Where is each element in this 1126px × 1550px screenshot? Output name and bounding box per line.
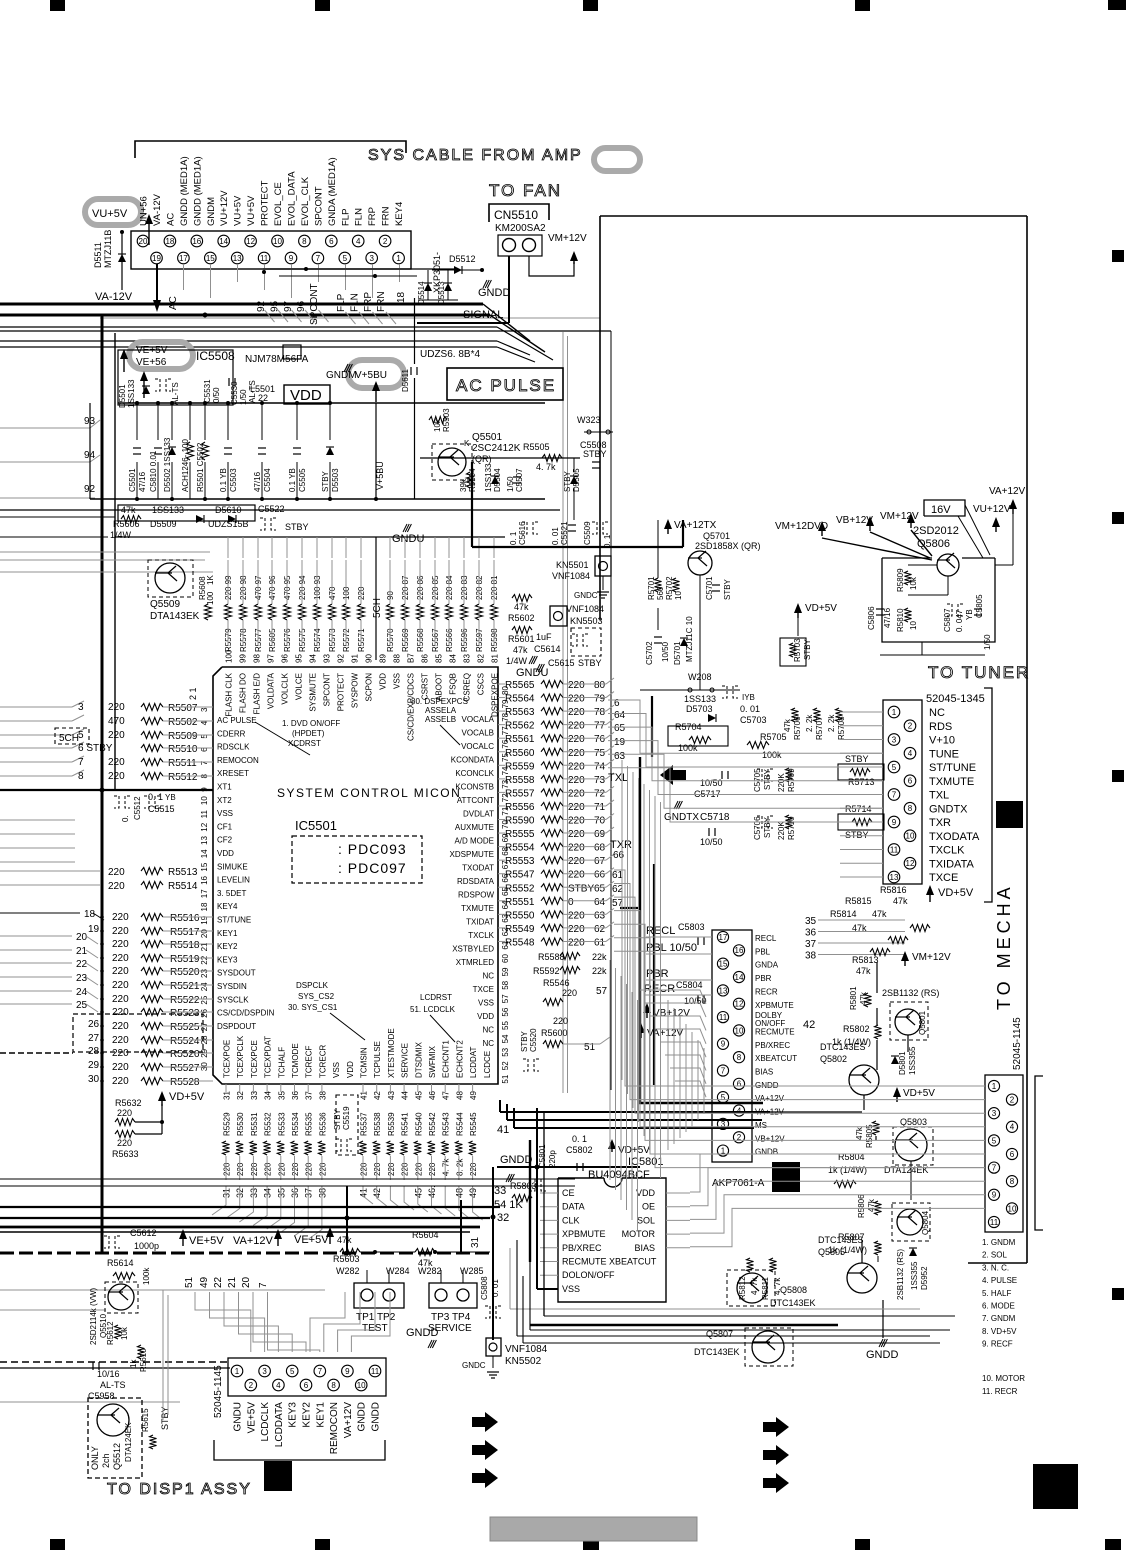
svg-text:3. N. C.: 3. N. C. xyxy=(982,1263,1009,1272)
svg-text:33: 33 xyxy=(494,1185,506,1197)
svg-text:220: 220 xyxy=(387,1162,396,1176)
wire bundle vertical to 17pin connector xyxy=(667,1000,669,1150)
pin 9 xyxy=(717,1038,728,1049)
svg-text:220: 220 xyxy=(112,1048,129,1059)
svg-text:74: 74 xyxy=(594,761,606,772)
svg-text:8: 8 xyxy=(1010,1177,1015,1186)
svg-text:8. 2k: 8. 2k xyxy=(455,1158,464,1176)
pin 8 REMOCON xyxy=(328,1379,340,1391)
svg-text:R5541: R5541 xyxy=(401,1112,410,1136)
svg-text:KM200SA2: KM200SA2 xyxy=(495,223,546,234)
svg-text:78: 78 xyxy=(594,707,606,718)
jack KN5502 VNF1084 xyxy=(486,1338,501,1356)
resistor R5512 xyxy=(0,775,72,777)
svg-text:16: 16 xyxy=(735,946,744,955)
svg-text:25: 25 xyxy=(76,1000,88,1011)
svg-text:DTC143EK: DTC143EK xyxy=(770,1298,816,1308)
svg-text:D5952: D5952 xyxy=(920,1266,929,1290)
wire rail VDD xyxy=(118,402,545,404)
pin 12 xyxy=(245,235,257,247)
svg-text:TO DISP1 ASSY: TO DISP1 ASSY xyxy=(107,1481,252,1498)
svg-text:VSS: VSS xyxy=(393,673,402,689)
pin 2 RDS xyxy=(904,720,916,732)
pin 3 xyxy=(366,252,378,264)
ground GNDD mecha xyxy=(882,1300,884,1338)
wire 94 xyxy=(0,461,90,463)
svg-text:NC: NC xyxy=(482,1039,494,1048)
pin 13 xyxy=(231,252,243,264)
svg-text:22: 22 xyxy=(76,959,88,970)
component R5501 C5502 xyxy=(204,403,206,440)
pin 5 xyxy=(339,252,351,264)
svg-text:20: 20 xyxy=(139,237,148,246)
svg-text:64: 64 xyxy=(614,710,626,721)
svg-text:FLASH E/D: FLASH E/D xyxy=(253,673,262,715)
svg-text:88: 88 xyxy=(393,654,402,663)
svg-text:20: 20 xyxy=(76,932,88,943)
transistor Q5512 DTA124EK (2ch only) xyxy=(88,1398,142,1478)
svg-text:84: 84 xyxy=(449,654,458,663)
svg-text:R5517: R5517 xyxy=(170,927,200,938)
svg-text:63: 63 xyxy=(594,910,606,921)
svg-text:4: 4 xyxy=(908,749,913,758)
svg-text:R5633: R5633 xyxy=(112,1149,139,1159)
pin 6 xyxy=(326,235,338,247)
pin 13 TXCE xyxy=(888,871,900,883)
wires Q5806 area xyxy=(908,564,937,566)
svg-text:MTZJ11B: MTZJ11B xyxy=(103,230,113,268)
pin 11 GNDD xyxy=(369,1365,381,1377)
svg-text:9: 9 xyxy=(721,1040,726,1049)
svg-text:SPCONT: SPCONT xyxy=(313,186,324,226)
pin 1 NC xyxy=(888,706,900,718)
svg-text:10/16: 10/16 xyxy=(97,1369,120,1379)
pin 8 GNDTX xyxy=(904,802,916,814)
svg-text:47k: 47k xyxy=(856,966,871,976)
svg-text:2SB1132 (RS): 2SB1132 (RS) xyxy=(896,1249,905,1300)
svg-text:R5603: R5603 xyxy=(333,1254,360,1264)
svg-text:89: 89 xyxy=(379,654,388,663)
svg-text:6: 6 xyxy=(908,777,913,786)
svg-text:R5537: R5537 xyxy=(360,1112,369,1136)
svg-text:39k: 39k xyxy=(459,478,468,492)
svg-text:D5703: D5703 xyxy=(686,704,713,714)
svg-text:KEY1: KEY1 xyxy=(315,1402,326,1428)
svg-text:BU4094BCF: BU4094BCF xyxy=(588,1169,650,1181)
svg-text:VOCALA: VOCALA xyxy=(462,715,495,724)
svg-text:9: 9 xyxy=(289,254,294,263)
svg-text:37: 37 xyxy=(305,1091,314,1100)
pin 11 xyxy=(258,252,270,264)
wire main vertical bus xyxy=(101,315,104,1253)
svg-text:Q5804: Q5804 xyxy=(921,1210,930,1235)
svg-text:FLASH CLK: FLASH CLK xyxy=(225,672,234,716)
svg-text:30: 30 xyxy=(88,1074,100,1085)
svg-text:1/4W: 1/4W xyxy=(110,530,132,540)
gray bar bottom xyxy=(490,1517,697,1541)
net VM+12DVD xyxy=(821,526,823,536)
svg-text:TXCLK: TXCLK xyxy=(468,931,494,940)
dashed 5CH box xyxy=(55,728,89,744)
svg-text:R5519: R5519 xyxy=(170,954,200,965)
svg-text:R5560: R5560 xyxy=(505,748,535,759)
svg-text:V+10: V+10 xyxy=(929,735,955,747)
svg-text:63: 63 xyxy=(614,751,626,762)
wires mid-left xyxy=(0,509,560,511)
svg-text:R5590: R5590 xyxy=(505,816,535,827)
svg-text:R5601: R5601 xyxy=(508,634,535,644)
svg-text:8: 8 xyxy=(908,804,913,813)
pin 1 xyxy=(717,1145,728,1156)
svg-text:STBY: STBY xyxy=(578,658,602,668)
svg-text:W208: W208 xyxy=(688,672,712,682)
svg-text:LCDDATA: LCDDATA xyxy=(274,1402,285,1448)
svg-text:47/16: 47/16 xyxy=(883,607,892,628)
svg-text:3. 5DET: 3. 5DET xyxy=(217,889,246,898)
svg-text:VM+12V: VM+12V xyxy=(912,952,951,963)
svg-text:220: 220 xyxy=(568,761,585,772)
wires below CN5505 xyxy=(156,264,158,282)
svg-text:6: 6 xyxy=(329,237,334,246)
pin 11 xyxy=(988,1216,999,1227)
svg-text:STBY: STBY xyxy=(583,449,607,459)
svg-text:220: 220 xyxy=(108,771,125,782)
svg-text:7: 7 xyxy=(721,1066,726,1075)
svg-text:47k: 47k xyxy=(893,896,908,906)
svg-text:66: 66 xyxy=(613,850,625,861)
svg-text:D5511: D5511 xyxy=(93,242,103,268)
svg-text:0. 1: 0. 1 xyxy=(572,1134,587,1144)
wire bundle IC to tuner xyxy=(608,700,883,753)
svg-text:5: 5 xyxy=(290,1367,295,1376)
svg-text:1/50: 1/50 xyxy=(506,476,515,492)
svg-text:14: 14 xyxy=(219,237,228,246)
pin 18 xyxy=(164,235,176,247)
pin 12 TXIDATA xyxy=(904,857,916,869)
svg-text:VM+12V: VM+12V xyxy=(880,511,919,522)
svg-text:AUXMUTE: AUXMUTE xyxy=(455,823,494,832)
svg-text:65: 65 xyxy=(594,883,606,894)
svg-text:TXIDAT: TXIDAT xyxy=(466,918,494,927)
svg-text:ONLY: ONLY xyxy=(90,1446,100,1470)
svg-text:TO TUNER: TO TUNER xyxy=(928,663,1030,682)
svg-text:7. GNDM: 7. GNDM xyxy=(982,1314,1016,1323)
svg-text:0.: 0. xyxy=(121,815,130,822)
svg-text:STBY: STBY xyxy=(845,830,869,840)
svg-text:R5614: R5614 xyxy=(107,1258,134,1268)
svg-text:R5803: R5803 xyxy=(510,1181,537,1191)
svg-text:93: 93 xyxy=(323,654,332,663)
svg-text:VU+5V: VU+5V xyxy=(233,195,244,226)
svg-text:R5592: R5592 xyxy=(533,966,560,976)
ground GNDU xyxy=(403,524,407,532)
svg-text:VB+12V: VB+12V xyxy=(836,515,873,526)
svg-text:90: 90 xyxy=(365,654,374,663)
svg-text:TXCLK: TXCLK xyxy=(929,845,965,857)
wire slants from power arrows xyxy=(822,538,932,560)
svg-text:XPBMUTE: XPBMUTE xyxy=(755,1001,794,1010)
svg-text:5: 5 xyxy=(892,763,897,772)
svg-text:PB/XREC: PB/XREC xyxy=(562,1243,602,1253)
svg-text:DVDLAT: DVDLAT xyxy=(463,810,494,819)
svg-text:42: 42 xyxy=(803,1019,815,1031)
net VM+12V xyxy=(910,518,912,528)
svg-text:R5526: R5526 xyxy=(170,1049,200,1060)
svg-text:IC5501: IC5501 xyxy=(295,818,337,833)
highlight pill xyxy=(594,148,640,171)
pin 4 xyxy=(352,235,364,247)
svg-text:220: 220 xyxy=(568,748,585,759)
svg-text:26: 26 xyxy=(200,1008,209,1017)
svg-text:1. GNDM: 1. GNDM xyxy=(982,1238,1016,1247)
svg-text:220K: 220K xyxy=(777,773,786,792)
svg-text:83: 83 xyxy=(463,654,472,663)
svg-text:12: 12 xyxy=(246,237,255,246)
resistor R5507 xyxy=(0,706,72,708)
svg-text:13: 13 xyxy=(719,986,728,995)
svg-text:KN5503: KN5503 xyxy=(570,616,603,626)
svg-text:21: 21 xyxy=(76,946,88,957)
svg-text:KEY4: KEY4 xyxy=(217,902,238,911)
component 0.1 YB C5505 xyxy=(296,403,298,440)
svg-text:16V: 16V xyxy=(931,504,951,516)
svg-text:43: 43 xyxy=(387,1091,396,1100)
svg-text:6: 6 xyxy=(1010,1150,1015,1159)
svg-text:FSQB: FSQB xyxy=(449,673,458,695)
pin 7 xyxy=(312,252,324,264)
capacitor C5515 0.1YB xyxy=(114,796,119,808)
svg-text:81: 81 xyxy=(491,654,500,663)
svg-text:55: 55 xyxy=(501,1021,510,1030)
svg-text:R5588: R5588 xyxy=(538,952,565,962)
pin 15 xyxy=(205,252,217,264)
wire GNDU rail xyxy=(115,536,505,538)
svg-text:PROTECT: PROTECT xyxy=(260,180,271,226)
svg-text:D5501: D5501 xyxy=(118,384,127,408)
svg-text:C5801: C5801 xyxy=(538,1144,547,1168)
pin 3 xyxy=(988,1108,999,1119)
svg-text:220: 220 xyxy=(223,1162,232,1176)
svg-text:6 STBY: 6 STBY xyxy=(78,743,113,754)
svg-text:R5522: R5522 xyxy=(170,995,200,1006)
svg-text:Q5805: Q5805 xyxy=(818,1247,845,1257)
svg-text:VE+5V: VE+5V xyxy=(294,1234,329,1246)
svg-text:220: 220 xyxy=(112,1076,129,1087)
svg-text:22k: 22k xyxy=(592,966,607,976)
svg-text:R5542: R5542 xyxy=(428,1112,437,1136)
svg-text:VU+12V: VU+12V xyxy=(973,504,1011,515)
svg-text:31: 31 xyxy=(223,1091,232,1100)
svg-text:UDZS6. 8B*4: UDZS6. 8B*4 xyxy=(420,349,480,360)
svg-text:5: 5 xyxy=(343,254,348,263)
svg-text:73: 73 xyxy=(594,775,606,786)
svg-text:11: 11 xyxy=(719,1013,728,1022)
svg-text:12: 12 xyxy=(200,822,209,831)
ground GNDTX xyxy=(674,801,678,809)
svg-text:CLK: CLK xyxy=(562,1215,580,1225)
connector mecha 11-pin xyxy=(985,1075,1023,1232)
wire stair fan below IC5801 xyxy=(509,1248,511,1309)
svg-text:R5502: R5502 xyxy=(168,717,198,728)
svg-text:NC: NC xyxy=(482,1026,494,1035)
svg-text:R5532: R5532 xyxy=(264,1112,273,1136)
svg-text:45: 45 xyxy=(414,1091,423,1100)
svg-text:GNDD: GNDD xyxy=(406,1327,438,1339)
component C5810 0.01 xyxy=(157,403,159,440)
label VDD box xyxy=(284,385,330,404)
component ACH1246- 100 xyxy=(189,403,191,440)
svg-text:7: 7 xyxy=(316,254,321,263)
wire stub Q5510 base xyxy=(0,1309,106,1311)
svg-text:C5615: C5615 xyxy=(548,658,575,668)
svg-text:XCDRST: XCDRST xyxy=(288,739,321,748)
pin 10 xyxy=(733,1025,744,1036)
svg-text:R5528: R5528 xyxy=(170,1077,200,1088)
svg-text:KCONCLK: KCONCLK xyxy=(455,769,494,778)
resistor R5602 47k xyxy=(512,595,532,602)
svg-text:58: 58 xyxy=(501,980,510,989)
svg-text:R5812: R5812 xyxy=(738,1276,747,1300)
pin 9 xyxy=(285,252,297,264)
svg-text:2SD2114k (VW): 2SD2114k (VW) xyxy=(89,1287,98,1345)
svg-text:10: 10 xyxy=(906,832,915,841)
svg-text:IC5801: IC5801 xyxy=(628,1156,663,1168)
svg-text:KEY2: KEY2 xyxy=(302,1402,313,1428)
svg-text:220: 220 xyxy=(112,994,129,1005)
svg-text:C5505: C5505 xyxy=(298,468,307,492)
svg-text:R5801: R5801 xyxy=(849,986,858,1010)
wire 92 xyxy=(0,497,95,499)
svg-text:1: 1 xyxy=(992,1082,997,1091)
svg-text:220: 220 xyxy=(108,730,125,741)
svg-text:REMOCON: REMOCON xyxy=(217,756,259,765)
svg-text:SYSDIN: SYSDIN xyxy=(217,982,247,991)
svg-text:1SS355: 1SS355 xyxy=(910,1261,919,1290)
svg-text:SWFMIX: SWFMIX xyxy=(428,1045,437,1078)
svg-text:220: 220 xyxy=(108,757,125,768)
svg-text:86: 86 xyxy=(421,654,430,663)
svg-text:21: 21 xyxy=(227,1276,238,1288)
svg-text:220: 220 xyxy=(277,1162,286,1176)
pin 7 xyxy=(717,1065,728,1076)
svg-text:RECR: RECR xyxy=(755,987,778,996)
svg-text:R5525: R5525 xyxy=(170,1022,200,1033)
pin 10 GNDD xyxy=(355,1379,367,1391)
svg-text:VDD: VDD xyxy=(636,1188,656,1198)
svg-text:5CH: 5CH xyxy=(59,733,79,744)
svg-text:7: 7 xyxy=(200,760,209,765)
svg-text:7: 7 xyxy=(318,1367,323,1376)
svg-text:57: 57 xyxy=(501,994,510,1003)
pin 7 KEY1 xyxy=(314,1365,326,1377)
svg-text:1/50: 1/50 xyxy=(983,634,992,650)
svg-text:220: 220 xyxy=(112,980,129,991)
svg-text:R5513: R5513 xyxy=(168,867,198,878)
svg-text:R5806: R5806 xyxy=(857,1194,866,1218)
svg-text:66: 66 xyxy=(594,870,606,881)
svg-text:STBY: STBY xyxy=(563,470,572,492)
svg-text:TCPULSE: TCPULSE xyxy=(373,1041,382,1078)
svg-text:10/50: 10/50 xyxy=(700,778,723,788)
svg-text:6. MODE: 6. MODE xyxy=(982,1302,1015,1311)
svg-text:75: 75 xyxy=(594,748,606,759)
svg-text:30. SYS_CS1: 30. SYS_CS1 xyxy=(288,1003,338,1012)
svg-text:GNDD: GNDD xyxy=(357,1402,368,1431)
svg-text:60: 60 xyxy=(501,954,510,963)
wire bus from amp (left) xyxy=(0,303,483,306)
svg-text:47k: 47k xyxy=(337,1235,352,1245)
svg-text:VDD: VDD xyxy=(346,1061,355,1078)
svg-text:R5518: R5518 xyxy=(170,940,200,951)
svg-text:17: 17 xyxy=(200,889,209,898)
svg-text:GNDA (MED1A): GNDA (MED1A) xyxy=(327,157,338,226)
svg-text:100: 100 xyxy=(225,649,234,663)
svg-text:35: 35 xyxy=(805,916,817,927)
resistor R5502 xyxy=(0,720,72,722)
thick bus line xt1 xyxy=(0,789,213,791)
svg-text:47k: 47k xyxy=(514,602,529,612)
svg-text:DTA124EK: DTA124EK xyxy=(124,1422,133,1462)
pin 6 TXMUTE xyxy=(904,775,916,787)
svg-text:FRN: FRN xyxy=(381,206,392,226)
pin 16 xyxy=(733,945,744,956)
svg-text:36: 36 xyxy=(291,1091,300,1100)
svg-text:220: 220 xyxy=(568,937,585,948)
pin 6 xyxy=(1006,1148,1017,1159)
svg-text:R5529: R5529 xyxy=(223,1112,232,1136)
svg-text:0. 1: 0. 1 xyxy=(148,792,163,802)
dashed PDC box xyxy=(292,836,422,883)
svg-text:R5509: R5509 xyxy=(168,731,198,742)
component D5502 1SS133 xyxy=(171,403,173,440)
svg-text:220: 220 xyxy=(108,881,125,892)
svg-text:VDD: VDD xyxy=(217,849,234,858)
svg-text:3: 3 xyxy=(200,707,209,712)
svg-text:GNDD (MED1A): GNDD (MED1A) xyxy=(192,156,203,226)
svg-text:VM+12V: VM+12V xyxy=(548,233,587,244)
svg-text:SYSCLK: SYSCLK xyxy=(217,995,249,1004)
wire bold segments ic5801 xyxy=(492,1167,494,1340)
svg-text:(QR): (QR) xyxy=(472,454,492,464)
svg-text:29: 29 xyxy=(88,1060,100,1071)
svg-text:SYS_CS2: SYS_CS2 xyxy=(298,992,335,1001)
svg-text:IYB: IYB xyxy=(742,693,755,702)
svg-text:Q5501: Q5501 xyxy=(472,432,502,443)
svg-text:99: 99 xyxy=(239,654,248,663)
pin 1 xyxy=(988,1080,999,1091)
svg-text:47/16: 47/16 xyxy=(253,471,262,492)
svg-text:VDD: VDD xyxy=(379,673,388,690)
svg-text:TP3 TP4: TP3 TP4 xyxy=(431,1312,471,1323)
svg-text:VA-12V: VA-12V xyxy=(95,291,133,303)
resistor R5521 xyxy=(0,976,72,978)
pin 6 KEY2 xyxy=(300,1379,312,1391)
svg-text:Q5509: Q5509 xyxy=(150,599,180,610)
svg-text:2: 2 xyxy=(249,1381,254,1390)
svg-text:220: 220 xyxy=(305,1162,314,1176)
svg-text:LCDDAT: LCDDAT xyxy=(469,1046,478,1078)
svg-text:34: 34 xyxy=(264,1091,273,1100)
svg-text:VM+12DVD: VM+12DVD xyxy=(775,521,828,532)
svg-text:12: 12 xyxy=(906,859,915,868)
svg-text:AC: AC xyxy=(168,296,179,310)
svg-text:1: 1 xyxy=(235,1367,240,1376)
svg-text:R5704: R5704 xyxy=(675,722,702,732)
svg-text:LCDRST: LCDRST xyxy=(420,993,452,1002)
svg-text:2: 2 xyxy=(908,722,913,731)
svg-text:R5511: R5511 xyxy=(168,758,197,769)
svg-text:AC: AC xyxy=(165,213,176,226)
